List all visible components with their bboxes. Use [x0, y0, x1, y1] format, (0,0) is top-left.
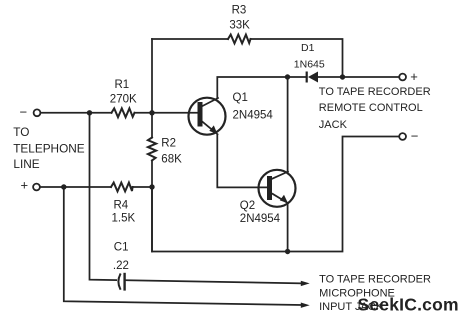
svg-text:R2: R2: [161, 138, 176, 150]
svg-text:R4: R4: [114, 200, 129, 212]
svg-text:.22: .22: [113, 260, 129, 272]
svg-text:TO TAPE RECORDER: TO TAPE RECORDER: [319, 86, 431, 98]
svg-text:TO: TO: [13, 125, 29, 139]
svg-text:68K: 68K: [161, 153, 182, 165]
svg-text:1.5K: 1.5K: [112, 212, 136, 224]
svg-text:2N4954: 2N4954: [240, 213, 281, 225]
svg-text:D1: D1: [301, 42, 315, 54]
svg-text:R1: R1: [115, 79, 130, 91]
svg-text:33K: 33K: [229, 19, 250, 31]
svg-text:REMOTE CONTROL: REMOTE CONTROL: [319, 102, 423, 114]
svg-text:C1: C1: [114, 242, 129, 254]
svg-text:+: +: [21, 177, 29, 192]
svg-text:SeekIC.com: SeekIC.com: [358, 295, 459, 315]
svg-text:TO TAPE RECORDER: TO TAPE RECORDER: [319, 274, 431, 286]
svg-text:Q1: Q1: [233, 92, 248, 104]
svg-text:−: −: [20, 105, 28, 120]
svg-text:1N645: 1N645: [294, 59, 325, 71]
svg-text:TELEPHONE: TELEPHONE: [13, 141, 85, 155]
svg-text:270K: 270K: [110, 94, 137, 106]
svg-text:JACK: JACK: [319, 119, 348, 131]
svg-text:−: −: [411, 128, 419, 143]
svg-text:2N4954: 2N4954: [233, 110, 274, 122]
svg-text:LINE: LINE: [13, 157, 39, 171]
svg-text:+: +: [410, 69, 418, 84]
svg-text:R3: R3: [232, 4, 247, 16]
svg-text:Q2: Q2: [240, 200, 255, 212]
